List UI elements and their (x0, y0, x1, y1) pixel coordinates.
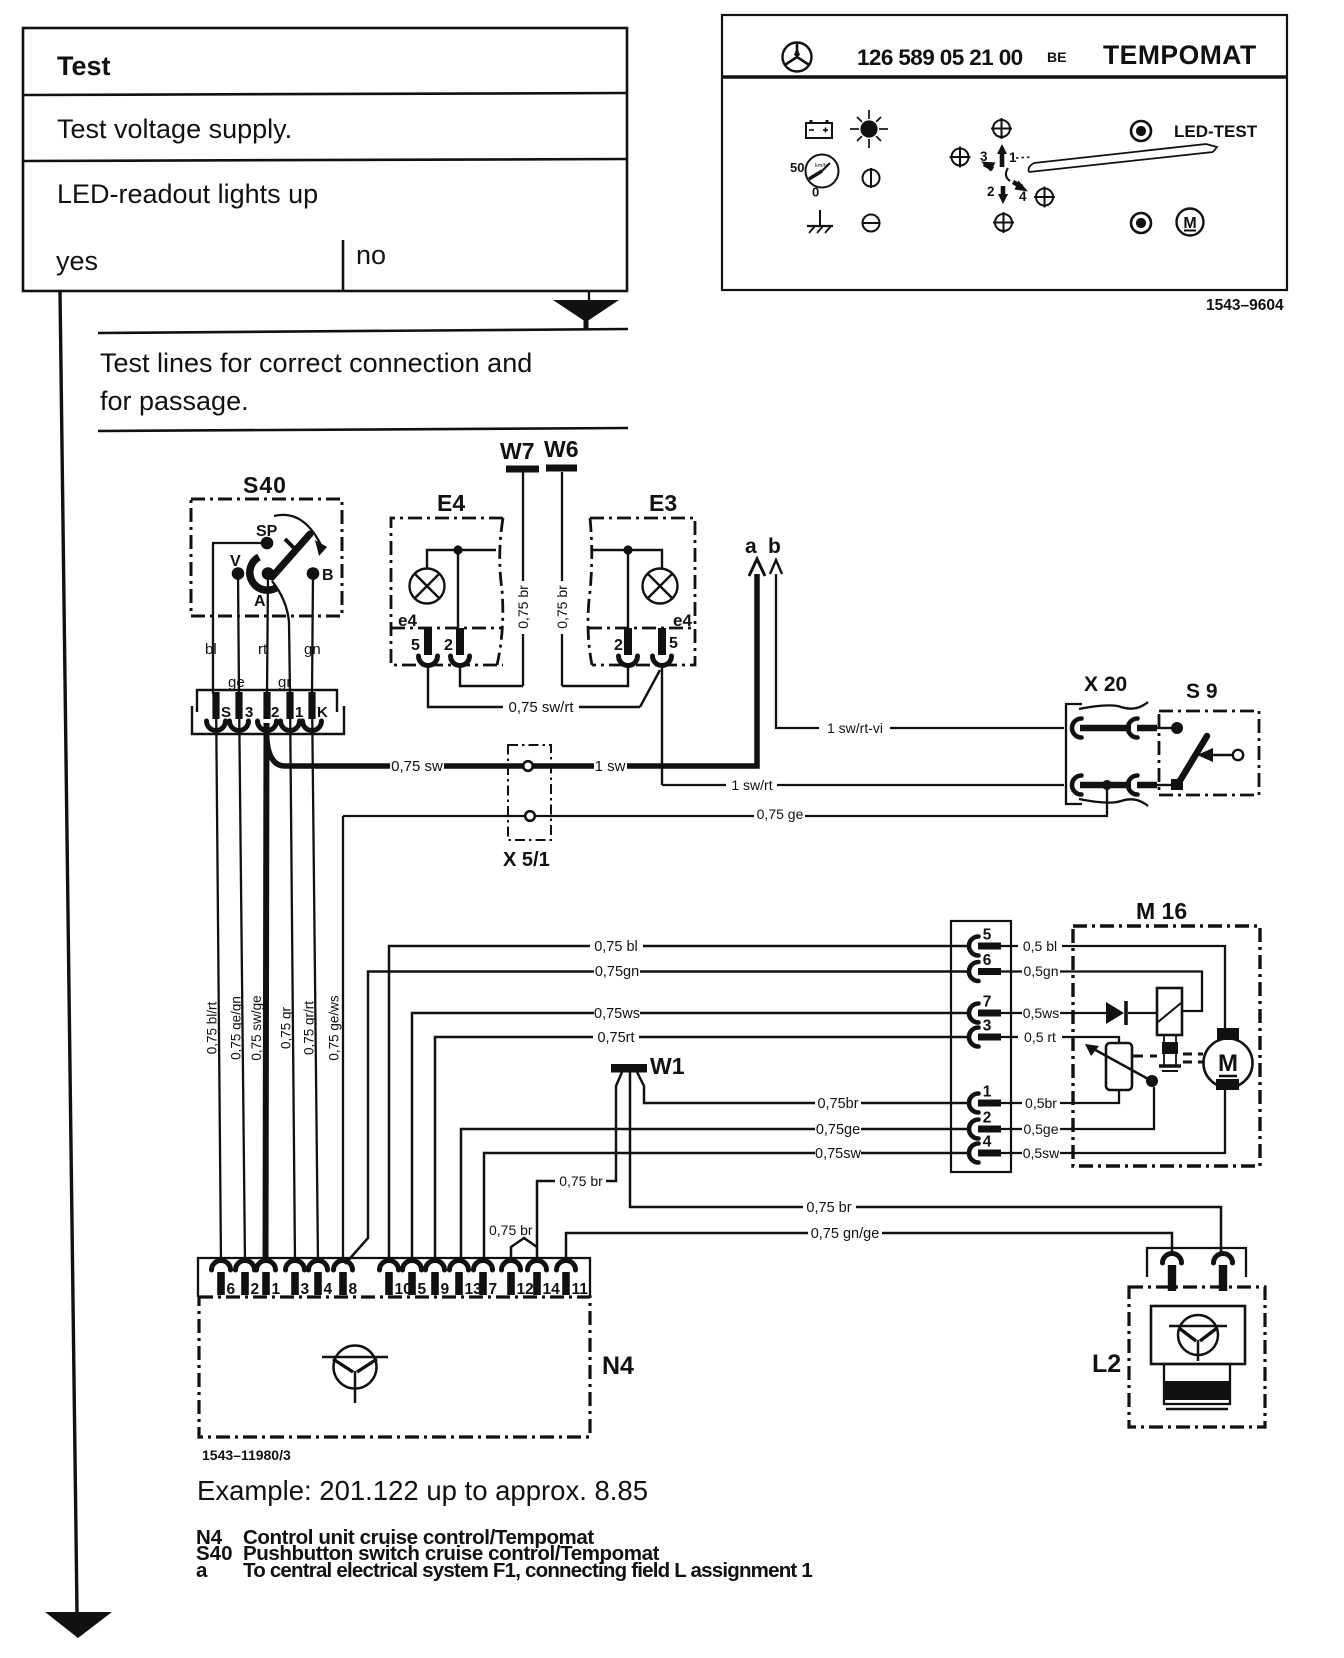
svg-text:0,75 ge/gn: 0,75 ge/gn (229, 996, 244, 1060)
svg-text:0,75 br: 0,75 br (489, 1222, 533, 1238)
svg-text:3: 3 (980, 149, 988, 164)
svg-text:0,75 ge: 0,75 ge (757, 806, 804, 822)
svg-text:0,5gn: 0,5gn (1023, 963, 1058, 979)
svg-text:S40: S40 (243, 472, 287, 498)
svg-text:0,75rt: 0,75rt (597, 1030, 634, 1046)
svg-text:Example: 201.122 up to approx.: Example: 201.122 up to approx. 8.85 (197, 1475, 648, 1506)
svg-text:5: 5 (669, 635, 678, 652)
svg-text:0,75 br: 0,75 br (806, 1200, 851, 1216)
svg-text:LED-readout lights up: LED-readout lights up (57, 179, 318, 209)
svg-text:7: 7 (983, 994, 992, 1011)
svg-text:0,5sw: 0,5sw (1023, 1145, 1060, 1161)
svg-text:V: V (230, 553, 241, 570)
svg-text:gr: gr (278, 674, 291, 691)
svg-text:0,75 br: 0,75 br (515, 585, 531, 629)
svg-text:6: 6 (983, 952, 992, 969)
svg-text:0,75 bl: 0,75 bl (594, 939, 638, 955)
svg-text:0,75ws: 0,75ws (594, 1006, 640, 1022)
svg-text:0,75sw: 0,75sw (815, 1146, 861, 1162)
svg-text:Test lines for correct connect: Test lines for correct connection and (100, 348, 532, 378)
svg-text:5: 5 (983, 927, 992, 944)
svg-text:5: 5 (411, 637, 420, 654)
svg-text:0: 0 (812, 185, 819, 200)
svg-text:2: 2 (983, 1110, 992, 1127)
svg-text:3: 3 (983, 1018, 992, 1035)
svg-text:0,5ge: 0,5ge (1023, 1121, 1058, 1137)
svg-text:0,75 gr/rt: 0,75 gr/rt (302, 1001, 317, 1055)
svg-text:S: S (221, 704, 231, 721)
svg-text:W6: W6 (544, 436, 579, 462)
svg-text:a: a (745, 535, 757, 558)
svg-text:M 16: M 16 (1136, 898, 1187, 924)
svg-text:a: a (196, 1559, 208, 1582)
svg-text:0,5 bl: 0,5 bl (1023, 938, 1057, 954)
svg-text:2: 2 (271, 704, 279, 721)
svg-text:2: 2 (444, 637, 453, 654)
svg-text:1 sw/rt: 1 sw/rt (731, 777, 772, 793)
svg-text:gn: gn (304, 641, 321, 658)
svg-text:0,75gn: 0,75gn (595, 964, 639, 980)
svg-text:2: 2 (614, 637, 623, 654)
svg-text:W7: W7 (500, 438, 535, 464)
svg-text:S 9: S 9 (1186, 680, 1218, 703)
svg-text:1: 1 (1009, 150, 1017, 165)
svg-text:To central electrical system F: To central electrical system F1, connect… (243, 1559, 812, 1582)
svg-text:rt: rt (258, 641, 268, 658)
svg-text:0,5br: 0,5br (1025, 1095, 1057, 1111)
svg-text:b: b (768, 535, 781, 558)
svg-text:km/h: km/h (815, 163, 827, 169)
svg-text:E4: E4 (437, 490, 465, 516)
svg-text:3: 3 (245, 704, 253, 721)
svg-text:Test voltage supply.: Test voltage supply. (57, 114, 292, 144)
svg-text:Test: Test (57, 51, 111, 81)
svg-text:TEMPOMAT: TEMPOMAT (1103, 40, 1257, 70)
svg-text:0,75 sw/ge: 0,75 sw/ge (249, 995, 264, 1060)
svg-text:50: 50 (790, 160, 804, 175)
svg-text:0,75 gr: 0,75 gr (279, 1006, 294, 1049)
svg-text:LED-TEST: LED-TEST (1174, 122, 1258, 141)
svg-text:1: 1 (295, 704, 303, 721)
svg-text:L2: L2 (1092, 1350, 1121, 1378)
svg-text:0,75 ge/ws: 0,75 ge/ws (327, 995, 342, 1061)
svg-text:0,5 rt: 0,5 rt (1024, 1029, 1056, 1045)
svg-text:0,75 br: 0,75 br (559, 1173, 603, 1189)
svg-text:0,75 sw: 0,75 sw (391, 758, 443, 775)
svg-text:K: K (317, 704, 328, 721)
svg-text:1: 1 (983, 1084, 992, 1101)
svg-text:2: 2 (987, 184, 995, 199)
svg-text:for passage.: for passage. (100, 386, 249, 416)
svg-text:0,75ge: 0,75ge (816, 1122, 860, 1138)
svg-text:no: no (356, 240, 386, 270)
svg-text:0,75 gn/ge: 0,75 gn/ge (811, 1226, 880, 1242)
svg-text:e4: e4 (398, 611, 417, 630)
svg-text:0,75br: 0,75br (817, 1096, 858, 1112)
svg-text:A: A (254, 593, 266, 610)
svg-text:4: 4 (1019, 189, 1027, 204)
svg-text:X 5/1: X 5/1 (503, 849, 550, 871)
svg-text:yes: yes (56, 246, 98, 276)
svg-text:ge: ge (228, 674, 245, 691)
svg-text:SP: SP (256, 523, 278, 540)
svg-text:1543–11980/3: 1543–11980/3 (202, 1447, 291, 1463)
svg-text:1 sw/rt-vi: 1 sw/rt-vi (827, 720, 883, 736)
svg-text:E3: E3 (649, 490, 677, 516)
svg-text:B: B (322, 567, 334, 584)
svg-text:bl: bl (205, 641, 217, 658)
svg-text:0,5ws: 0,5ws (1023, 1005, 1060, 1021)
svg-text:0,75 sw/rt: 0,75 sw/rt (508, 699, 574, 716)
svg-text:X 20: X 20 (1084, 673, 1127, 696)
svg-text:4: 4 (983, 1134, 992, 1151)
svg-text:N4: N4 (602, 1352, 634, 1380)
svg-text:1 sw: 1 sw (595, 758, 626, 775)
svg-text:1543–9604: 1543–9604 (1206, 297, 1284, 314)
svg-text:126 589 05 21 00: 126 589 05 21 00 (857, 45, 1023, 70)
svg-text:W1: W1 (650, 1053, 685, 1079)
svg-text:BE: BE (1047, 49, 1066, 65)
svg-text:M: M (1183, 215, 1196, 232)
svg-text:M: M (1218, 1050, 1238, 1077)
svg-text:0,75 bl/rt: 0,75 bl/rt (205, 1001, 220, 1054)
svg-text:e4: e4 (673, 611, 692, 630)
svg-text:0,75 br: 0,75 br (554, 585, 570, 629)
